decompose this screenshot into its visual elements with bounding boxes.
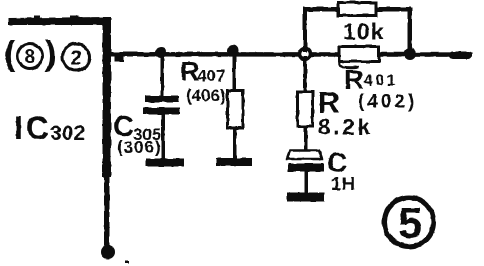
op-amp IC302 label [14,110,85,146]
C305 value label [113,111,162,157]
wire: main horizontal wire [107,52,472,57]
svg-text:(402): (402) [358,92,417,113]
wire: thick vertical bus from IC302 [103,17,112,248]
svg-text:302: 302 [50,122,85,145]
wire: R407 top lead [233,54,237,93]
R407 label [180,57,226,106]
wire: R 8.2k top lead [304,56,308,93]
resistor R407 [228,91,244,129]
node A junction dot [156,47,167,58]
wire: C bottom lead [305,171,309,194]
node: open circle junction [300,49,311,60]
svg-text:(406): (406) [186,86,226,105]
wire: C305 bottom lead [162,113,166,160]
resistor 10k [338,3,376,16]
node (8) label [4,35,56,73]
svg-text:8: 8 [25,47,36,68]
svg-text:8.2k: 8.2k [318,115,373,140]
ground: R407 ground bar [216,158,252,166]
svg-text:401: 401 [364,73,398,90]
node B junction dot [228,45,239,56]
wire: right arrow end [449,52,472,60]
R401 label [344,65,417,113]
speck [125,261,129,264]
C value label [327,147,356,194]
svg-text:(306): (306) [117,138,162,157]
svg-text:R: R [344,65,364,95]
resistor R401 [339,47,379,62]
svg-text:1H: 1H [331,174,356,194]
wire: parallel loop left riser [303,8,307,52]
capacitor C (1H) top plate [287,151,322,160]
wire: parallel loop top wire [303,7,411,12]
wire: C305 top lead [161,54,165,96]
R401 redraw squiggle [339,61,359,68]
svg-text:(: ( [4,35,16,73]
svg-text:IC: IC [14,110,52,146]
wire: R 8.2k bottom lead [304,126,308,151]
wire: thick top bus bar [8,16,107,26]
wire: small stub below wire near bus [115,56,124,62]
ground: C305 ground bar [146,159,184,167]
svg-text:407: 407 [197,67,225,86]
node (2) label [63,44,90,71]
node C junction dot [404,48,416,60]
wire: R407 bottom lead [233,128,237,159]
resistor R 8.2k [298,92,313,127]
svg-text:2: 2 [71,48,82,70]
ground: C ground bar [287,193,324,202]
R 8.2k label [318,87,373,140]
svg-text:): ) [45,35,56,73]
node: bus end dot [101,245,115,259]
svg-text:10k: 10k [343,19,384,45]
capacitor C (1H) bottom plate [288,164,324,172]
svg-text:5: 5 [398,199,422,248]
wire: parallel loop right riser [408,8,413,54]
node 5 circled label [385,198,434,249]
capacitor C305 [143,96,180,115]
